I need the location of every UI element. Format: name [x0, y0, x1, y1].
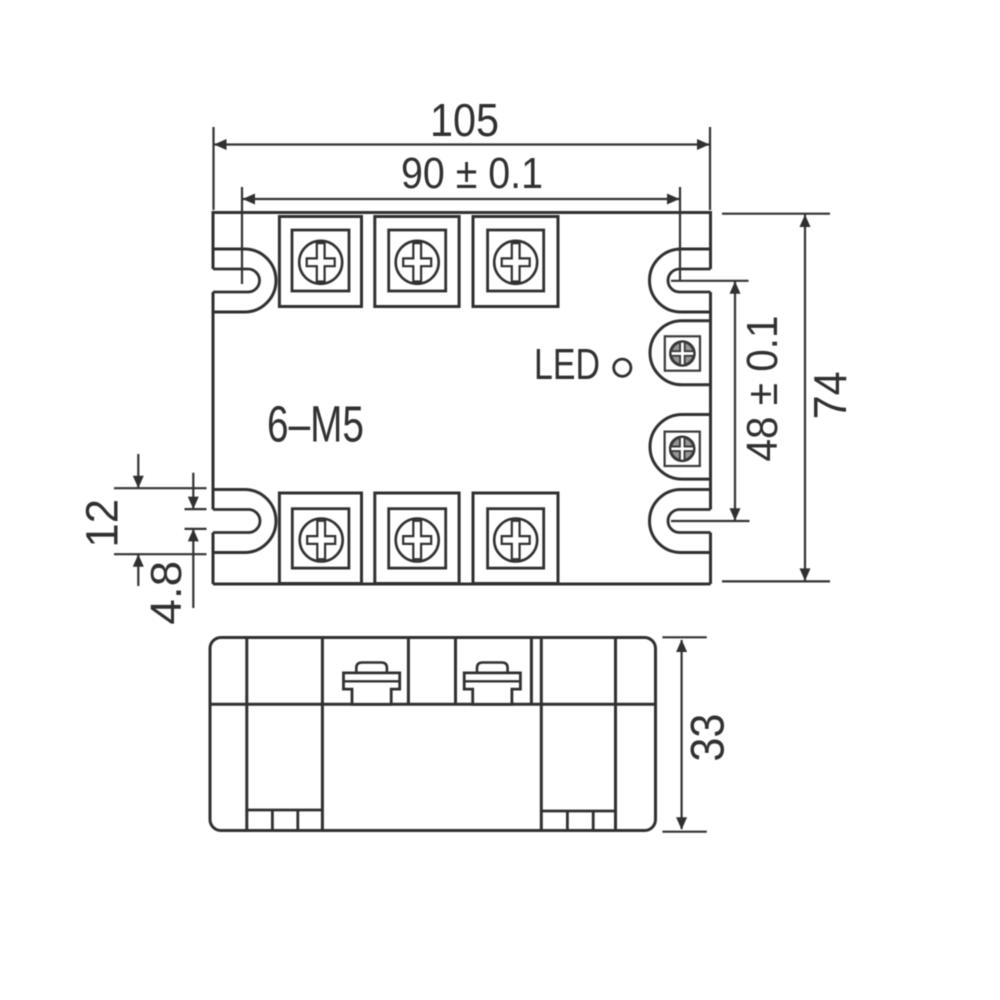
side view vertical line 5 [530, 638, 533, 705]
terminal block T1 inner [292, 230, 349, 291]
dimension 74 arrow top [800, 215, 811, 228]
dimension 12 arrow top [133, 476, 144, 489]
terminal screw T2 [396, 241, 439, 284]
control terminal screw B [665, 432, 700, 466]
top view body right edge [709, 211, 712, 584]
dimension 74 line [804, 214, 806, 581]
mounting ear bottom-left outer [213, 490, 276, 553]
dimension 12 extension lines [114, 488, 207, 554]
dimension 4.8 arrow top [188, 497, 199, 510]
side view body outline [210, 638, 656, 831]
side view vertical line 7 [614, 638, 617, 831]
control terminal bump A [650, 321, 711, 385]
control terminal screw A [665, 336, 700, 370]
mounting slot top-right [668, 269, 711, 292]
terminal screw T4 [300, 519, 343, 562]
svg-text:48 ± 0.1: 48 ± 0.1 [738, 316, 787, 462]
dimension 4.8 line [192, 473, 194, 608]
dimension 105 extension lines [214, 127, 711, 210]
dimension 48 line [734, 281, 736, 521]
side view vertical line 2 [321, 638, 324, 831]
dimension 4.8 arrow bottom [188, 529, 199, 542]
terminal block T2 outer [375, 217, 459, 307]
dimension 90 line [242, 198, 680, 200]
LED indicator circle [614, 359, 631, 376]
svg-text:12: 12 [77, 499, 128, 548]
svg-text:4.8: 4.8 [142, 561, 191, 625]
control terminal bump B [650, 415, 711, 480]
svg-text:74: 74 [804, 371, 856, 419]
terminal block T6 inner [488, 509, 544, 568]
dimension 12 line [137, 454, 139, 586]
dimension 4.8 extension lines [185, 509, 207, 529]
terminal block T5 outer [375, 493, 459, 584]
terminal block T5 inner [389, 509, 446, 568]
side view screw S2 [464, 663, 520, 705]
terminal block T2 inner [389, 230, 446, 291]
terminal block T4 inner [292, 509, 349, 568]
mounting ear bottom-right outer [650, 490, 711, 553]
terminal screw T5 [396, 519, 439, 562]
dimension 74 arrow bottom [800, 568, 811, 581]
side view vertical line 4 [454, 638, 457, 705]
dimension 105 line [214, 143, 711, 145]
mounting slot bottom-right [668, 510, 711, 533]
dimension 90 arrow left [243, 194, 256, 205]
top view body top edge [213, 211, 711, 214]
terminal screw T1 [299, 241, 342, 284]
dimension 33 extension lines [662, 637, 706, 831]
terminal screw T6 [494, 519, 537, 562]
dimension 33 arrow bottom [676, 817, 687, 830]
mounting ear top-left outer [213, 249, 276, 312]
side view divider line [210, 703, 656, 706]
dimension 48 arrow top [730, 281, 741, 294]
terminal block T4 outer [279, 493, 361, 584]
terminal screw T3 [494, 241, 537, 284]
svg-text:90 ± 0.1: 90 ± 0.1 [401, 149, 543, 198]
side view vertical line 6 [540, 638, 543, 831]
dimension 90 extension lines [242, 187, 680, 284]
svg-text:33: 33 [681, 714, 734, 762]
top view body bottom edge [213, 583, 711, 586]
side view right foot [541, 811, 615, 831]
side view vertical line 1 [245, 638, 248, 831]
dimension 33 arrow top [676, 640, 687, 653]
terminal block T3 inner [488, 230, 544, 291]
dimension 90 arrow right [667, 194, 680, 205]
mounting slot top-left [213, 269, 260, 292]
side view screw S1 [344, 663, 400, 705]
side view vertical line 3 [407, 638, 410, 705]
dimension 33 line [680, 640, 682, 829]
svg-text:6–M5: 6–M5 [267, 396, 364, 453]
side view left foot [247, 810, 323, 831]
dimension 12 arrow bottom [133, 554, 144, 567]
svg-text:LED: LED [534, 340, 600, 389]
svg-text:105: 105 [430, 94, 499, 146]
top view body left edge [212, 211, 215, 584]
dimension 74 extension lines [722, 214, 830, 582]
dimension 48 arrow bottom [730, 508, 741, 521]
terminal block T1 outer [279, 217, 361, 307]
mounting ear top-right outer [650, 249, 711, 312]
dimension 105 arrow right [697, 139, 710, 150]
terminal block T3 outer [473, 217, 558, 307]
mounting slot bottom-left [213, 510, 260, 533]
terminal block T6 outer [473, 493, 558, 584]
dimension 48 extension lines [671, 281, 750, 521]
dimension 105 arrow left [214, 139, 227, 150]
